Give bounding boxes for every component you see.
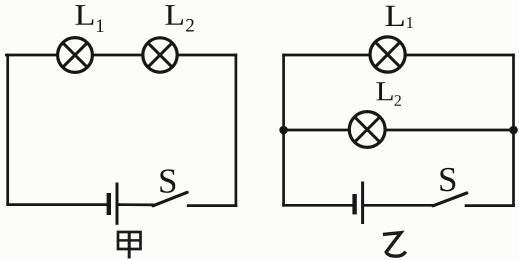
junction node (right circuit, left) <box>279 126 288 135</box>
label L2 (right circuit) <box>376 82 392 100</box>
wire: right circuit, middle branch left segment <box>284 129 350 132</box>
wire: left circuit, top side after lamp L2 <box>177 54 236 57</box>
wire: right circuit, right vertical side <box>512 55 515 205</box>
battery (right circuit): long thin positive plate <box>361 182 364 225</box>
lamp L2 (left circuit) <box>143 38 177 72</box>
wire: left circuit, right vertical side <box>235 55 238 206</box>
lamp L2 (right circuit) <box>349 112 385 148</box>
wire: right circuit, bottom left segment (corner to battery) <box>284 204 353 207</box>
label S (right circuit) <box>440 168 455 192</box>
battery (left circuit): short thick negative plate <box>107 193 111 215</box>
wire: left circuit, top side before lamp L1 <box>6 54 57 57</box>
wire: right circuit, left vertical side <box>282 55 285 205</box>
wire: right circuit, bottom segment battery to switch pivot <box>364 204 433 207</box>
wire: left circuit, left vertical side <box>6 55 9 205</box>
label S (left circuit) <box>160 169 175 193</box>
label yi (right circuit caption) <box>383 233 406 257</box>
switch S blade (right circuit) <box>433 193 467 206</box>
wire: right circuit, middle branch right segment <box>385 129 513 132</box>
battery (left circuit): long thin positive plate <box>116 183 119 225</box>
wire: right circuit, top side after lamp L1 <box>405 54 513 57</box>
wire: left circuit, bottom right segment (switch contact to corner) <box>188 204 236 207</box>
wire: left circuit, bottom segment battery to switch pivot <box>119 203 153 206</box>
wire: right circuit, top side before lamp L1 <box>284 54 370 57</box>
wire: left circuit, bottom left segment (corner to battery) <box>8 203 108 206</box>
wire: left circuit, top side between lamps L1 and L2 <box>92 54 142 57</box>
lamp L1 (left circuit) <box>58 38 93 73</box>
label L2 (left circuit) <box>165 5 183 25</box>
junction node (right circuit, right) <box>509 126 518 135</box>
label L1 (right circuit) <box>386 6 404 26</box>
lamp L1 (right circuit) <box>370 37 405 72</box>
wire: right circuit, bottom right segment (switch contact to corner) <box>466 204 514 207</box>
label L1 (left circuit) <box>75 5 93 25</box>
switch S blade (left circuit) <box>153 192 187 206</box>
battery (right circuit): short thick negative plate <box>352 194 356 214</box>
label jia (left circuit caption) <box>118 232 141 258</box>
